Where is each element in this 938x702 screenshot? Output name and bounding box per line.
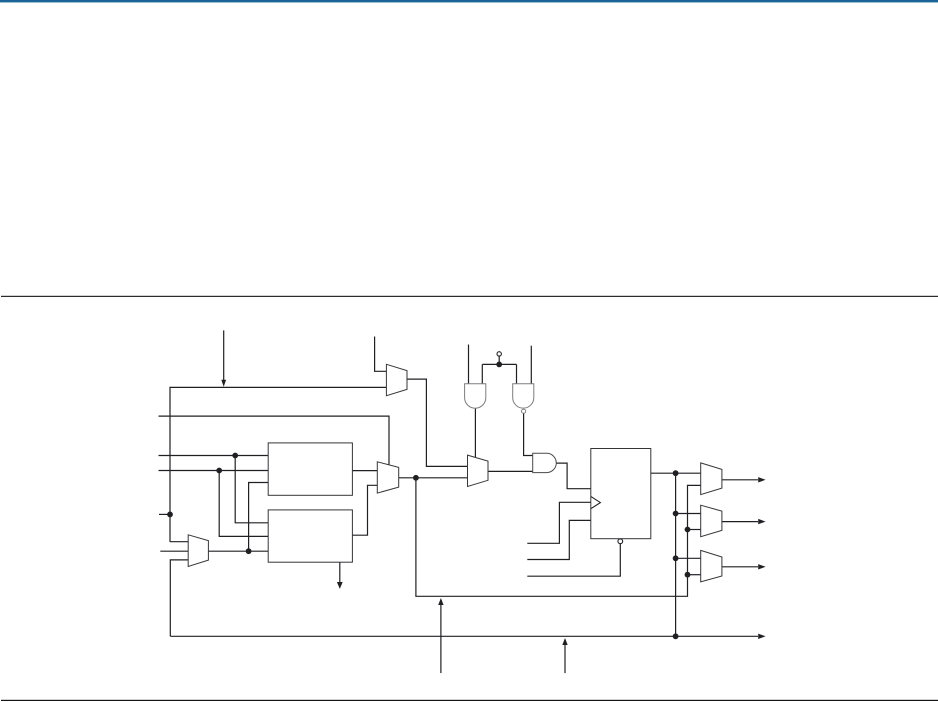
wire: buffer B2 output arrow — [722, 519, 766, 524]
wire: buffer B3 output arrow — [722, 564, 766, 569]
wire: mux M3 upper input from left rail — [170, 541, 188, 543]
wire: mux M2 output node B to mux M4 lower input — [399, 475, 468, 481]
header blue bar — [0, 0, 938, 2]
wire: mux M1 output to mux M4 upper input — [407, 379, 468, 466]
wire: FF1 inverted output from bubble staircase stub — [527, 544, 620, 576]
wire: horizontal net y=387 from left rail to mux M1 lower input — [170, 387, 386, 542]
register REG2 — [268, 510, 352, 562]
AND gate G3 — [533, 453, 557, 472]
wire: bottom rail y=636 with output arrow — [170, 633, 765, 639]
wire: bottom input arrow 1 up to feedback net — [438, 598, 443, 673]
wire: shared net between G1 and G2 with inverted stub — [482, 352, 516, 368]
wire: mux M4 output to AND G3 lower input — [488, 470, 533, 472]
wire: NAND G2 input pin 1 from shared net — [516, 364, 518, 383]
wire: vertical rail R1 from Q down to bottom rail — [675, 473, 677, 636]
wire: FF1 clock line staircase stub — [527, 502, 591, 543]
top divider rule — [1, 296, 938, 297]
wire: REG1 output to mux M2 upper input — [352, 470, 377, 472]
mux M1 — [386, 364, 407, 395]
wire: REG2 bottom output down arrow — [337, 562, 343, 589]
node A: junction dot on left rail with input stub — [159, 512, 173, 518]
wire: AND G1 output down to mux M4 select — [474, 408, 476, 457]
wire: mux M1 top input from above — [375, 337, 387, 372]
wire: select bus y=416 into mux M2 select — [159, 416, 390, 465]
wire: rail R1 tap to buffer B2 upper input — [673, 511, 701, 517]
wire: AND G3 output into flip-flop FF1 D input — [556, 463, 591, 489]
wire: REG2 right output up to mux M2 lower input — [352, 485, 377, 535]
wire: bottom input arrow 2 up to bottom rail — [562, 638, 567, 673]
wire: buffer B1 output arrow — [722, 477, 766, 482]
wire: FF1 enable input staircase stub — [527, 520, 591, 559]
buffer B3 — [701, 550, 722, 582]
buffer B2 — [701, 505, 722, 537]
wire: AND G1 input pin 2 from shared net — [481, 364, 483, 383]
flip-flop FF1 — [591, 449, 651, 544]
wire: NAND G2 output down to AND G3 upper input — [524, 413, 533, 455]
NAND gate G2 — [513, 384, 534, 414]
wire: mux M3 output to REG2 input — [208, 550, 268, 552]
wire: bus y=470.5 to register REG1 input, branch down to REG2 — [159, 468, 269, 537]
wire: top input arrow line into node A — [221, 330, 226, 386]
wire: bus y=455.5 to register REG1 input, branch down to REG2 — [159, 453, 269, 523]
wire: FF1 Q output to buffer B1 with junction on rail R1 — [651, 470, 701, 476]
register REG1 — [268, 443, 352, 495]
buffer B1 — [701, 463, 722, 495]
wire: mux M3 middle input stub — [160, 550, 188, 552]
wire: rail R2 tap to buffer B3 lower input — [685, 572, 701, 578]
wire: rail R2 tap to buffer B2 lower input — [685, 527, 701, 533]
mux M4 — [468, 455, 489, 486]
bottom divider rule — [1, 700, 938, 701]
wire: mux M3 lower input from bottom rail — [170, 560, 188, 636]
wire: REG1 third input fed from mux M3 output node — [246, 483, 269, 555]
wire: NAND G2 input pin 2 — [530, 346, 532, 384]
AND gate G1 — [465, 384, 486, 408]
mux M2 — [377, 462, 398, 493]
wire: rail R1 tap to buffer B3 upper input — [673, 555, 701, 561]
wire: AND G1 input pin 1 — [468, 345, 470, 384]
wire: feedback from node B down and right up into buffer B1 lower input — [416, 478, 701, 597]
mux M3 — [188, 535, 208, 567]
